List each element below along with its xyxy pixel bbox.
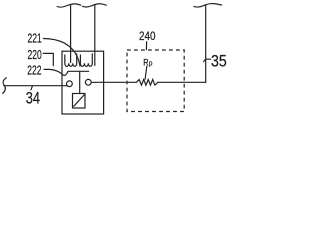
- wire: left input from node 34: [4, 85, 67, 87]
- left contact circle: [67, 81, 73, 87]
- leader line for 220: [43, 53, 53, 65]
- svg-text:220: 220: [28, 48, 42, 62]
- wire: resistor to right corner: [158, 81, 206, 83]
- plunger square inside relay: [73, 94, 86, 109]
- link from armature to plunger square: [79, 71, 81, 93]
- leader tick for 34: [31, 86, 32, 90]
- svg-text:34: 34: [26, 90, 40, 108]
- break symbol at left wire end: [3, 78, 7, 94]
- break symbol at top of left lead: [57, 4, 81, 7]
- coil 221 left winding: [65, 54, 77, 67]
- leader tick for 240: [145, 42, 147, 50]
- svg-text:35: 35: [211, 53, 227, 71]
- leader tick for RP: [145, 66, 147, 79]
- svg-text:222: 222: [27, 64, 41, 78]
- wire: top-right vertical lead to coil: [94, 5, 96, 66]
- leader dash for 35: [204, 59, 211, 61]
- dashed block 240: [127, 50, 184, 112]
- resistor RP zigzag: [136, 80, 158, 86]
- leader line for 221: [44, 39, 81, 67]
- break symbol at top of right lead: [83, 4, 107, 7]
- relay box 220: [62, 51, 104, 114]
- svg-text:p: p: [149, 60, 153, 68]
- right contact circle: [85, 79, 91, 85]
- svg-text:240: 240: [139, 30, 156, 43]
- coil 221 right winding: [80, 54, 92, 67]
- wire: right vertical riser 35: [205, 5, 207, 82]
- svg-text:R: R: [143, 57, 148, 68]
- armature bar of contact 222: [68, 70, 89, 72]
- break symbol at top of riser: [194, 4, 222, 8]
- leader line for 222: [44, 69, 68, 75]
- diagonal inside plunger square: [74, 95, 84, 106]
- wire: top-left vertical lead to coil: [70, 5, 72, 63]
- wire: relay output to resistor: [91, 81, 136, 83]
- svg-text:221: 221: [28, 32, 42, 46]
